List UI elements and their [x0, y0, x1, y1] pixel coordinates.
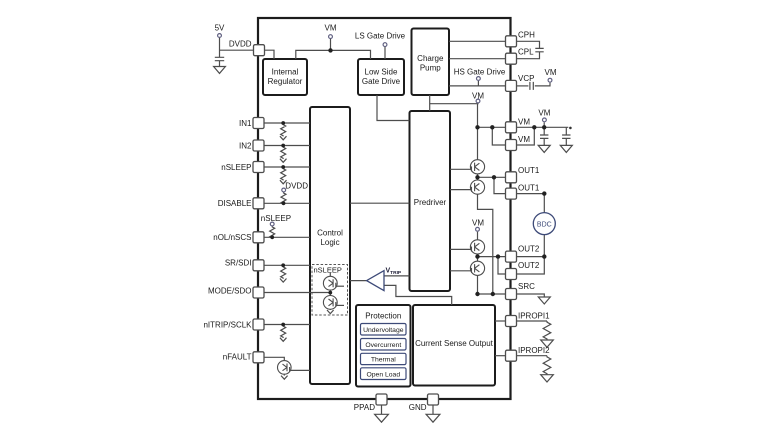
ground symbol below R-IPROPI2: [541, 375, 554, 382]
wire HS Gate Drive rail to VCP pin: [449, 85, 506, 87]
arrow pulldown nSLEEP: [280, 180, 287, 184]
svg-text:nSLEEP: nSLEEP: [314, 265, 342, 274]
pin nOL/nSCS: [253, 232, 264, 243]
pin CPH: [506, 36, 517, 47]
wire VM terminal stub above cap: [543, 122, 545, 127]
wire PPAD pin to ground: [381, 405, 383, 414]
svg-text:nITRIP/SCLK: nITRIP/SCLK: [203, 320, 252, 329]
node OUT1 pin loop: [492, 175, 496, 179]
wire to capacitor C-VM2: [565, 127, 567, 134]
svg-text:Pump: Pump: [420, 63, 441, 72]
wire Current Sense Output to IPROPI2: [495, 355, 506, 357]
wire Control Logic to Predriver: [350, 202, 410, 204]
motor BDC: [533, 213, 555, 235]
capacitor C-VCP plates: [530, 82, 533, 90]
transistor Q7 nFAULT open drain: [278, 361, 292, 375]
ground symbol below C-VM2: [560, 145, 572, 152]
wire OUT2 second pin right loop: [517, 257, 545, 274]
node motor bottom: [542, 254, 546, 258]
wire C-VM2 to ground: [565, 138, 567, 145]
wire Predriver gate FET4: [450, 270, 472, 272]
wire FET A gate stub: [335, 285, 344, 287]
svg-text:OUT2: OUT2: [518, 245, 540, 254]
resistor pulldown nSLEEP: [281, 168, 286, 181]
svg-text:nOL/nSCS: nOL/nSCS: [213, 233, 251, 242]
pin nSLEEP: [253, 162, 264, 173]
resistor pulldown IN1: [281, 124, 286, 137]
wire HS Gate Drive terminal stub: [477, 81, 479, 86]
svg-text:DVDD: DVDD: [285, 182, 308, 191]
svg-text:PPAD: PPAD: [354, 403, 375, 412]
pin OUT2b: [506, 269, 517, 280]
wire IN1 to Control Logic: [265, 122, 311, 124]
svg-text:LS Gate Drive: LS Gate Drive: [355, 32, 406, 41]
pin PPAD: [376, 394, 387, 405]
wire nSLEEP box label to FET A: [329, 273, 331, 277]
wire 5V to DVDD pin: [220, 49, 254, 51]
wire IPROPI1 pin to resistor: [517, 320, 548, 322]
node VM2 left loop: [490, 125, 494, 129]
pin VM2: [506, 140, 517, 151]
wire 5V terminal down to capacitor: [219, 38, 221, 58]
wire VCP capacitor to VM terminal: [535, 83, 550, 86]
wire VM down to high-side FET1: [477, 104, 479, 160]
pin DVDD: [254, 45, 265, 56]
svg-text:Gate Drive: Gate Drive: [362, 77, 401, 86]
terminal VM at VCP cap: [548, 78, 552, 82]
node SRC at FET4: [475, 292, 479, 296]
node SRC at FET2 return: [491, 292, 495, 296]
pin VM1: [506, 122, 517, 133]
wire to capacitor C-VM1: [543, 127, 545, 134]
wire nOL/nSCS to Control Logic: [265, 236, 311, 238]
wire nITRIP/SCLK to Control Logic: [265, 324, 311, 326]
block Control Logic: [310, 107, 350, 384]
svg-text:VM: VM: [325, 23, 337, 32]
svg-text:VM: VM: [472, 91, 484, 100]
svg-text:BDC: BDC: [537, 221, 552, 228]
wire nFAULT FET gate to Control Logic: [289, 369, 310, 371]
svg-text:Overcurrent: Overcurrent: [365, 342, 401, 349]
svg-text:VM: VM: [518, 135, 530, 144]
svg-text:DISABLE: DISABLE: [218, 199, 252, 208]
svg-text:IPROPI2: IPROPI2: [518, 346, 550, 355]
wire comparator output to Control Logic: [350, 280, 367, 282]
block Internal Regulator: [263, 59, 307, 95]
node polarity mark C-VM2: [569, 127, 572, 130]
wire FET2 source down and over to SRC rail: [478, 194, 493, 294]
wire flying capacitor to CPL: [517, 52, 540, 59]
pin DISABLE: [253, 198, 264, 209]
wire Predriver gate FET1: [450, 168, 472, 170]
svg-text:CPH: CPH: [518, 30, 535, 39]
pin SRC: [506, 289, 517, 300]
arrow FET B source: [327, 310, 334, 314]
pin nITRIP/SCLK: [253, 319, 264, 330]
wire Predriver gate FET3: [450, 248, 472, 250]
terminal VM top: [329, 35, 333, 39]
wire VM rail to Internal Regulator and Low Side Gate Drive: [296, 50, 371, 59]
resistor pulldown IN2: [281, 146, 286, 159]
terminal DVDD pullup: [282, 188, 286, 192]
svg-text:Regulator: Regulator: [268, 77, 303, 86]
wire FET4 source down to SRC rail: [477, 275, 479, 294]
svg-text:OUT2: OUT2: [518, 261, 540, 270]
node OUT1 switch: [475, 175, 479, 179]
node pulldown IN1: [281, 121, 285, 125]
svg-text:Protection: Protection: [365, 311, 401, 320]
resistor R-IPROPI2: [543, 356, 551, 375]
transistor Q2 low-side OUT1: [470, 180, 484, 194]
wire Low Side Gate Drive to Predriver: [377, 95, 410, 121]
svg-text:OUT1: OUT1: [518, 184, 540, 193]
transistor Q1 high-side OUT1: [470, 160, 484, 174]
pin SR/SDI: [253, 260, 264, 271]
terminal 5V: [218, 34, 222, 38]
ground symbol below C-VM1: [538, 145, 550, 152]
block Low Side Gate Drive: [358, 59, 404, 95]
block Current Sense Output: [413, 305, 495, 386]
svg-text:HS Gate Drive: HS Gate Drive: [454, 68, 506, 77]
svg-text:Undervoltage: Undervoltage: [363, 327, 404, 334]
capacitor C-DVDD plates: [215, 57, 224, 60]
terminal VM mid at FET3: [476, 227, 480, 231]
node OUT2 switch: [475, 254, 479, 258]
node motor top: [542, 191, 546, 195]
svg-text:VCP: VCP: [518, 74, 534, 83]
wire OUT2 pin to motor node: [517, 256, 545, 258]
pin IN2: [253, 140, 264, 151]
wire FET B gate stub: [335, 304, 344, 306]
pin nFAULT: [253, 352, 264, 363]
wire VM1 pin to bulk caps: [517, 126, 569, 128]
arrow pulldown nITRIP/SCLK: [280, 338, 287, 342]
svg-text:IN1: IN1: [239, 119, 252, 128]
wire comparator top input to Predriver: [384, 275, 410, 277]
wire FET3 source to FET4 drain: [477, 254, 479, 261]
resistor pulldown nITRIP/SCLK: [281, 325, 286, 338]
transistor Q3 high-side OUT2: [470, 240, 484, 254]
ground symbol below PPAD: [375, 414, 389, 422]
terminal nSLEEP pullup: [270, 222, 274, 226]
wire C-VM1 to ground: [543, 138, 545, 145]
svg-text:Internal: Internal: [272, 68, 299, 77]
arrow pulldown SR/SDI: [280, 279, 287, 283]
node OUT2 pin loop: [496, 254, 500, 258]
node nSLEEP gate chain: [328, 291, 332, 295]
node pulldown IN2: [281, 144, 285, 148]
capacitor C-VM1 plates: [540, 135, 548, 138]
resistor pullup nSLEEP to nOL/nSCS: [270, 226, 275, 238]
pin MODE/SDO: [253, 287, 264, 298]
transistor Q5 nSLEEP gate A: [323, 276, 337, 290]
wire VM1 rail on right: [478, 126, 506, 128]
svg-text:VM: VM: [518, 117, 530, 126]
wire OUT2 second pin loop: [498, 257, 506, 274]
terminal HS Gate Drive: [477, 77, 481, 81]
svg-text:VM: VM: [545, 68, 557, 77]
block Overcurrent: [361, 339, 407, 351]
block Protection: [356, 305, 411, 387]
svg-text:nSLEEP: nSLEEP: [261, 214, 291, 223]
block Charge Pump: [412, 29, 450, 96]
wire OUT1 second pin loop: [494, 177, 506, 193]
svg-text:Charge: Charge: [417, 54, 444, 63]
wire BDC to OUT2 node: [543, 235, 545, 257]
svg-text:MODE/SDO: MODE/SDO: [208, 286, 252, 295]
chip boundary U1: [258, 18, 511, 399]
wire VCP pin to VCP capacitor: [517, 85, 529, 87]
svg-text:VM: VM: [538, 109, 550, 118]
svg-text:Control: Control: [317, 229, 343, 238]
pin OUT1b: [506, 188, 517, 199]
terminal VM above predriver: [476, 99, 480, 103]
svg-text:GND: GND: [409, 403, 427, 412]
svg-text:Predriver: Predriver: [414, 198, 447, 207]
svg-text:SRC: SRC: [518, 282, 535, 291]
wire Current Sense Output to IPROPI1: [495, 320, 506, 322]
wire VM mid terminal to FET3: [477, 232, 479, 240]
svg-text:IN2: IN2: [239, 141, 252, 150]
pin GND: [428, 394, 439, 405]
block Thermal: [361, 353, 407, 364]
wire LS Gate Drive terminal stub: [384, 47, 386, 59]
wire OUT2 switch node to pin: [478, 256, 506, 258]
wire DVDD pin to Internal Regulator: [265, 50, 275, 59]
svg-text:CPL: CPL: [518, 48, 534, 57]
wire VM2 left loop: [492, 127, 505, 145]
protection sub-blocks: [361, 324, 407, 380]
svg-text:nSLEEP: nSLEEP: [221, 163, 251, 172]
node pullup DISABLE: [282, 201, 286, 205]
wire DISABLE to Control Logic: [265, 202, 311, 204]
svg-text:nFAULT: nFAULT: [223, 353, 252, 362]
terminal VM above bulk cap: [543, 118, 547, 122]
wire SR/SDI to Control Logic: [265, 264, 311, 266]
wire MODE/SDO into nSLEEP gate box: [265, 292, 331, 294]
ground symbol at SRC: [538, 297, 550, 304]
svg-text:DVDD: DVDD: [229, 40, 252, 49]
wire IN2 to Control Logic: [265, 145, 311, 147]
wire nFAULT FET source to arrow: [283, 374, 285, 376]
arrow nFAULT FET source: [281, 376, 288, 380]
svg-text:Current Sense Output: Current Sense Output: [415, 339, 494, 348]
wire VM terminal stub: [330, 39, 332, 51]
wire capacitor to ground: [219, 61, 221, 67]
svg-text:IPROPI1: IPROPI1: [518, 311, 550, 320]
wire FET A source to FET B drain: [329, 290, 331, 296]
wire SRC pin to ground: [517, 294, 545, 297]
capacitor C-CP flying plates: [535, 48, 543, 51]
wire nFAULT to open-drain FET: [265, 357, 285, 360]
arrow pulldown IN1: [280, 136, 287, 140]
wire FET1 source to FET2 drain: [477, 174, 479, 180]
wire nSLEEP to Control Logic: [265, 166, 311, 168]
wire OUT1 pin to motor node: [517, 193, 545, 195]
terminal LS Gate Drive: [383, 43, 387, 47]
capacitor C-VM2 plates: [562, 135, 570, 138]
node VM chain at VM1 rail: [475, 125, 479, 129]
resistor pullup DVDD to DISABLE: [281, 192, 286, 204]
pin IPROPI2: [506, 350, 517, 361]
block Undervoltage: [361, 324, 407, 336]
wire comparator bottom input to Current Sense Output: [384, 285, 452, 305]
ground symbol below DVDD cap: [214, 67, 226, 74]
node pulldown nSLEEP: [281, 165, 285, 169]
wire CPH to flying capacitor: [517, 41, 540, 48]
wire Charge Pump to CPL pin: [449, 58, 506, 60]
pin IN1: [253, 118, 264, 129]
wire SRC rail to pin: [478, 293, 506, 295]
op-amp VTRIP comparator: [367, 271, 384, 291]
node VM rail junction: [328, 48, 332, 52]
pin VCP: [506, 80, 517, 91]
block Predriver: [410, 111, 451, 291]
wire motor node down to BDC: [543, 194, 545, 213]
svg-text:VM: VM: [472, 219, 484, 228]
wire GND pin to ground: [432, 405, 434, 414]
node pullup nOL/nSCS: [270, 235, 274, 239]
dashed box nSLEEP: [312, 265, 348, 316]
node VM2 right loop: [532, 125, 536, 129]
svg-text:Low Side: Low Side: [365, 68, 398, 77]
resistor pulldown SR/SDI: [281, 266, 286, 279]
wire Predriver gate FET2: [450, 189, 472, 191]
node VM terminal at caps: [542, 125, 546, 129]
wire VM2 right loop: [517, 127, 535, 145]
pin OUT1a: [506, 172, 517, 183]
pin IPROPI1: [506, 316, 517, 327]
svg-text:Thermal: Thermal: [371, 357, 396, 364]
node pulldown SR/SDI: [281, 263, 285, 267]
node pulldown nITRIP/SCLK: [281, 323, 285, 327]
arrow pulldown IN2: [280, 159, 287, 163]
wire IPROPI2 pin to resistor: [517, 355, 548, 357]
svg-text:SR/SDI: SR/SDI: [225, 259, 252, 268]
wire FET B source to arrow: [329, 308, 331, 311]
transistor Q6 nSLEEP gate B: [323, 296, 337, 310]
svg-text:Open Load: Open Load: [366, 371, 400, 378]
wire Charge Pump to Predriver: [429, 95, 431, 111]
resistor R-IPROPI1: [543, 321, 551, 340]
svg-text:OUT1: OUT1: [518, 166, 540, 175]
transistor Q4 low-side OUT2: [470, 261, 484, 275]
wire OUT1 switch node to pin: [478, 176, 506, 178]
ground symbol below GND: [426, 414, 440, 422]
ground symbol below R-IPROPI1: [541, 340, 554, 347]
wire Charge Pump to CPH pin: [449, 40, 506, 42]
pin OUT2a: [506, 251, 517, 262]
svg-text:5V: 5V: [215, 23, 225, 32]
svg-text:Logic: Logic: [320, 238, 339, 247]
pin CPL: [506, 53, 517, 64]
wire VM branch to charge-pump feed: [430, 102, 478, 104]
block Open Load: [361, 368, 407, 380]
